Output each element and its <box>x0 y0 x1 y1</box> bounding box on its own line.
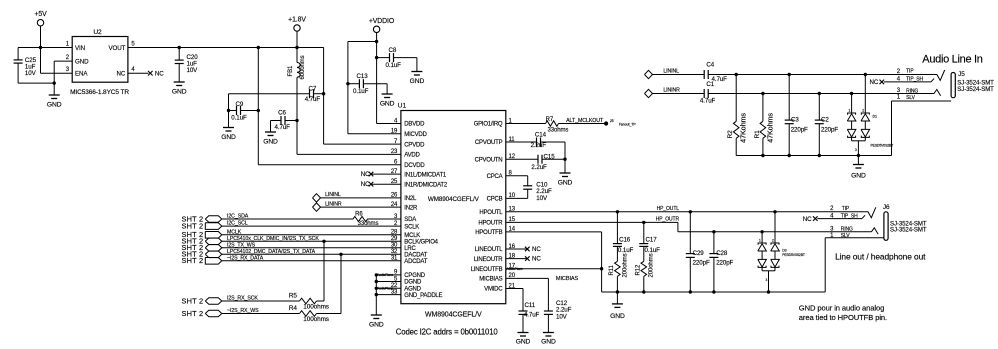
svg-text:SHT 2: SHT 2 <box>182 256 204 265</box>
svg-text:200ohms: 200ohms <box>622 253 628 277</box>
svg-text:GND: GND <box>610 313 625 320</box>
svg-text:R7: R7 <box>546 117 554 123</box>
svg-text:IN1L/DMICDAT1: IN1L/DMICDAT1 <box>404 172 447 178</box>
svg-text:SDA: SDA <box>404 217 416 223</box>
svg-text:R6: R6 <box>355 212 363 218</box>
svg-text:MICBIAS: MICBIAS <box>479 277 502 283</box>
svg-text:IN1R/DMICDAT2: IN1R/DMICDAT2 <box>404 182 448 188</box>
svg-text:GND: GND <box>369 322 384 329</box>
svg-text:U2: U2 <box>93 29 102 36</box>
svg-text:100ohms: 100ohms <box>303 316 329 323</box>
svg-text:NC: NC <box>532 246 541 253</box>
svg-text:R5: R5 <box>289 292 298 299</box>
svg-text:GND: GND <box>75 58 89 65</box>
svg-text:SHT 2: SHT 2 <box>182 309 204 318</box>
svg-text:NC: NC <box>532 256 541 263</box>
svg-text:C6: C6 <box>278 110 286 117</box>
svg-text:GND_PADDLE: GND_PADDLE <box>404 293 442 299</box>
svg-text:HP_OUTR: HP_OUTR <box>656 217 680 223</box>
svg-text:33ohms: 33ohms <box>358 221 379 227</box>
svg-text:C1: C1 <box>706 81 714 88</box>
svg-text:BCLK/GPIO4: BCLK/GPIO4 <box>404 240 438 246</box>
svg-text:CPGND: CPGND <box>404 273 425 279</box>
svg-text:LPC54102_DMC_DATA/I2S_TX_DATA: LPC54102_DMC_DATA/I2S_TX_DATA <box>227 249 316 255</box>
svg-text:LPC5410x_CLK_DMIC_IN/I2S_TX_SC: LPC5410x_CLK_DMIC_IN/I2S_TX_SCK <box>227 236 319 242</box>
svg-text:RING: RING <box>906 89 918 95</box>
svg-text:TIP_SH: TIP_SH <box>841 214 858 220</box>
svg-text:DGND: DGND <box>404 280 422 286</box>
svg-text:LINEOUTR: LINEOUTR <box>474 257 503 263</box>
svg-text:C16: C16 <box>619 237 631 244</box>
svg-text:CPCB: CPCB <box>487 197 503 203</box>
svg-text:LINEOUTFB: LINEOUTFB <box>471 267 503 273</box>
svg-text:2.2uF: 2.2uF <box>531 164 547 171</box>
svg-text:RING: RING <box>841 227 853 233</box>
svg-text:C29: C29 <box>693 250 705 257</box>
svg-text:GND: GND <box>263 139 278 146</box>
svg-text:C14: C14 <box>535 132 547 139</box>
svg-text:CPVDD: CPVDD <box>404 142 425 148</box>
svg-text:DBVDD: DBVDD <box>404 122 425 128</box>
svg-text:HPOUTR: HPOUTR <box>478 221 503 227</box>
svg-text:SLV: SLV <box>906 95 916 101</box>
svg-text:0.1uF: 0.1uF <box>618 247 634 254</box>
svg-text:I2C_SCL: I2C_SCL <box>227 221 248 227</box>
svg-text:AVDD: AVDD <box>404 153 420 159</box>
svg-text:DCVDD: DCVDD <box>404 163 425 169</box>
svg-text:10V: 10V <box>536 195 548 202</box>
svg-text:C9: C9 <box>236 101 244 108</box>
svg-text:Audio Line In: Audio Line In <box>922 54 982 66</box>
svg-text:LININR: LININR <box>663 88 680 94</box>
svg-text:GPIO1/IRQ: GPIO1/IRQ <box>474 122 503 128</box>
svg-text:MICBIAS: MICBIAS <box>556 276 579 282</box>
svg-text:GND: GND <box>380 101 395 108</box>
svg-text:AGND: AGND <box>404 287 421 293</box>
svg-text:TIP_SH: TIP_SH <box>906 76 923 82</box>
svg-text:HPOUTFB: HPOUTFB <box>475 230 502 236</box>
svg-text:C2: C2 <box>821 117 829 124</box>
svg-text:IN2R: IN2R <box>404 205 418 211</box>
svg-text:NC: NC <box>361 181 370 188</box>
svg-text:HPOUTL: HPOUTL <box>479 210 503 216</box>
svg-text:NC: NC <box>155 71 164 78</box>
svg-text:WM8904CGEFL/V: WM8904CGEFL/V <box>428 196 480 203</box>
svg-text:220pF: 220pF <box>716 260 733 267</box>
svg-text:25: 25 <box>610 119 614 123</box>
svg-text:R11: R11 <box>609 264 615 275</box>
svg-text:R12: R12 <box>635 264 641 275</box>
svg-text:VIN: VIN <box>75 45 85 52</box>
svg-text:SLV: SLV <box>841 233 851 239</box>
svg-text:PESD5V0S2BT: PESD5V0S2BT <box>782 253 805 257</box>
svg-text:0.1uF: 0.1uF <box>386 62 402 69</box>
svg-text:C17: C17 <box>646 237 658 244</box>
svg-text:I2S_TX_WS: I2S_TX_WS <box>227 242 256 248</box>
svg-text:NC: NC <box>117 71 126 78</box>
svg-text:LINEOUTL: LINEOUTL <box>475 247 503 253</box>
svg-text:FB1: FB1 <box>288 65 294 76</box>
svg-text:4.7uF: 4.7uF <box>305 96 321 103</box>
svg-text:33ohms: 33ohms <box>548 128 569 134</box>
svg-text:TIP: TIP <box>906 69 914 75</box>
svg-text:R4: R4 <box>289 305 298 312</box>
svg-text:HP_OUTL: HP_OUTL <box>657 206 680 212</box>
svg-text:+5V: +5V <box>34 11 47 18</box>
svg-text:GND pour in audio analog: GND pour in audio analog <box>799 304 884 313</box>
svg-text:2.2uF: 2.2uF <box>531 142 547 149</box>
svg-text:ADCDAT: ADCDAT <box>404 259 427 265</box>
svg-text:VMIDC: VMIDC <box>484 287 503 293</box>
svg-text:area tied to HPOUTFB pin.: area tied to HPOUTFB pin. <box>799 313 887 322</box>
svg-text:Fanout_TP: Fanout_TP <box>619 123 637 127</box>
svg-text:220pF: 220pF <box>693 260 710 267</box>
svg-text:200ohms: 200ohms <box>649 253 655 277</box>
svg-text:C3: C3 <box>791 117 799 124</box>
svg-text:0.1uF: 0.1uF <box>231 114 247 121</box>
svg-text:0.1uF: 0.1uF <box>645 247 661 254</box>
svg-text:19: 19 <box>391 129 398 135</box>
svg-text:C7: C7 <box>309 86 317 93</box>
svg-text:NC: NC <box>870 79 879 86</box>
svg-text:4.7uF: 4.7uF <box>700 98 716 105</box>
svg-text:ENA: ENA <box>75 71 88 78</box>
svg-text:47Kohms: 47Kohms <box>739 113 748 143</box>
svg-text:IN2L: IN2L <box>404 196 417 202</box>
svg-text:Line out / headphone out: Line out / headphone out <box>835 252 926 262</box>
svg-text:LININR: LININR <box>325 201 342 207</box>
svg-text:Codec I2C addrs = 0b0011010: Codec I2C addrs = 0b0011010 <box>396 328 499 337</box>
svg-text:U1: U1 <box>398 103 407 110</box>
svg-text:MICVDD: MICVDD <box>404 132 427 138</box>
svg-text:LININL: LININL <box>663 69 679 75</box>
svg-text:SJ-3524-SMT: SJ-3524-SMT <box>957 86 994 93</box>
svg-text:C4: C4 <box>706 62 714 69</box>
svg-text:CPCA: CPCA <box>487 174 503 180</box>
svg-text:4.7uF: 4.7uF <box>524 311 540 318</box>
svg-text:WM8904CGEFL/V: WM8904CGEFL/V <box>425 312 482 319</box>
svg-text:47Kohms: 47Kohms <box>765 113 774 143</box>
svg-text:PESD5V0S2BT: PESD5V0S2BT <box>871 144 894 148</box>
svg-text:TIP: TIP <box>842 206 850 212</box>
svg-text:10V: 10V <box>187 67 199 74</box>
svg-text:DACDAT: DACDAT <box>404 253 427 259</box>
svg-text:GND: GND <box>541 339 556 346</box>
svg-text:GND: GND <box>221 134 236 141</box>
svg-text:I2C_SDA: I2C_SDA <box>227 214 249 220</box>
svg-text:MCLK: MCLK <box>404 233 420 239</box>
svg-text:J5: J5 <box>958 71 965 78</box>
svg-text:ALT_MCLKOUT: ALT_MCLKOUT <box>566 118 604 124</box>
svg-text:C11: C11 <box>525 302 536 309</box>
svg-text:R1: R1 <box>754 130 761 139</box>
svg-text:R2: R2 <box>727 130 734 139</box>
svg-text:SCLK: SCLK <box>404 224 419 230</box>
svg-text:220pF: 220pF <box>821 126 838 133</box>
svg-text:+VDDIO: +VDDIO <box>369 18 395 25</box>
svg-text:SHT 2: SHT 2 <box>182 222 204 231</box>
svg-text:600ohms: 600ohms <box>300 55 306 79</box>
svg-text:SJ-3524-SMT: SJ-3524-SMT <box>890 227 927 234</box>
svg-text:C13: C13 <box>357 73 369 80</box>
svg-text:GND: GND <box>172 89 187 96</box>
svg-text:C15: C15 <box>544 154 556 161</box>
svg-text:4.7uF: 4.7uF <box>275 124 291 131</box>
svg-text:100ohms: 100ohms <box>303 304 329 311</box>
svg-text:GND: GND <box>410 78 425 85</box>
svg-text:23: 23 <box>391 149 398 155</box>
svg-text:LININL: LININL <box>325 192 341 198</box>
svg-text:D3: D3 <box>782 249 786 253</box>
svg-text:D1: D1 <box>873 115 877 119</box>
svg-text:C8: C8 <box>389 47 397 54</box>
svg-text:LRC: LRC <box>404 246 416 252</box>
svg-text:CPVOUTP: CPVOUTP <box>475 140 503 146</box>
svg-text:GND: GND <box>851 173 866 180</box>
svg-text:MIC5366-1.8YC5 TR: MIC5366-1.8YC5 TR <box>70 89 129 96</box>
svg-text:GND: GND <box>516 339 531 346</box>
svg-text:GND: GND <box>47 102 62 109</box>
svg-text:0.1uF: 0.1uF <box>353 88 369 95</box>
svg-text:SHT 2: SHT 2 <box>182 296 204 305</box>
svg-text:NC: NC <box>803 216 812 223</box>
svg-text:VOUT: VOUT <box>109 45 126 52</box>
svg-text:10V: 10V <box>556 313 568 320</box>
svg-text:MCLK: MCLK <box>227 229 242 235</box>
svg-text:J6: J6 <box>883 204 890 211</box>
svg-text:~I2S_RX_DATA: ~I2S_RX_DATA <box>227 255 264 261</box>
svg-text:NC: NC <box>361 171 370 178</box>
svg-text:GND: GND <box>558 180 573 187</box>
svg-text:CPVOUTN: CPVOUTN <box>475 157 503 163</box>
svg-text:C28: C28 <box>716 250 728 257</box>
svg-text:+1.8V: +1.8V <box>288 17 306 24</box>
svg-text:10V: 10V <box>25 70 37 77</box>
svg-text:220pF: 220pF <box>791 126 808 133</box>
